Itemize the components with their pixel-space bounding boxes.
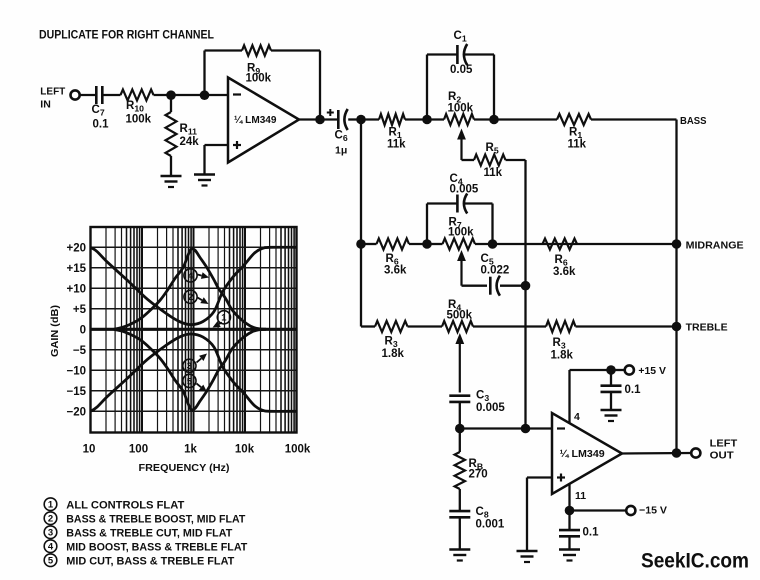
svg-text:0.05: 0.05 <box>450 64 473 76</box>
svg-text:+10: +10 <box>66 284 86 296</box>
graph frame <box>91 227 297 433</box>
svg-text:GAIN (dB): GAIN (dB) <box>49 305 61 357</box>
node junction C5 / center bus <box>521 281 531 291</box>
svg-text:TREBLE: TREBLE <box>686 322 728 334</box>
svg-text:MID CUT, BASS & TREBLE FLAT: MID CUT, BASS & TREBLE FLAT <box>66 555 234 567</box>
node F junction <box>422 239 432 249</box>
svg-text:3.6k: 3.6k <box>553 266 576 278</box>
node junction treble row / right bus <box>672 322 682 332</box>
svg-text:1μ: 1μ <box>335 145 347 157</box>
wire node F to R7 <box>427 243 443 245</box>
capacitor C6 (polarity +) <box>337 110 340 129</box>
capacitor C1 <box>456 45 459 64</box>
wire U1 output <box>299 118 338 120</box>
wire node (361,244) to R6 left <box>361 243 377 245</box>
svg-text:0.005: 0.005 <box>450 184 479 196</box>
resistor R6 (left) <box>377 239 410 250</box>
svg-text:MIDRANGE: MIDRANGE <box>686 240 744 252</box>
curve marker 5 <box>183 374 196 387</box>
resistor R6 (right) <box>543 239 578 250</box>
svg-text:¼ LM349: ¼ LM349 <box>560 448 605 460</box>
ground below -15V bypass <box>559 548 580 551</box>
capacitor C5 <box>489 277 492 295</box>
svg-text:−15 V: −15 V <box>639 505 667 517</box>
wire pin 4 to +15V rail <box>568 370 570 424</box>
wiper arrow of treble pot R4 <box>459 341 461 393</box>
svg-text:+15: +15 <box>66 263 86 275</box>
+15V terminal <box>625 365 634 374</box>
svg-text:11k: 11k <box>484 167 503 179</box>
svg-text:100k: 100k <box>448 103 474 115</box>
svg-text:100k: 100k <box>126 114 152 126</box>
node C junction <box>356 115 366 125</box>
curve 4 (mid boost) <box>114 249 266 329</box>
svg-text:2: 2 <box>48 514 53 525</box>
node H junction <box>455 424 465 434</box>
ground below +15V bypass <box>601 409 622 412</box>
wire R4 to R3 right <box>473 325 546 327</box>
svg-text:0.1: 0.1 <box>625 384 642 396</box>
wire C6 to node C <box>348 118 361 120</box>
wire wiper to C5 <box>462 285 488 287</box>
wire U2 output <box>622 452 691 455</box>
wire center bus vertical (R5 down to U2 minus row) <box>524 160 526 429</box>
capacitor C1 loop top wire <box>427 53 457 55</box>
svg-text:LEFT: LEFT <box>710 437 738 449</box>
op-amp U1 (1/4 LM349) <box>228 78 299 163</box>
wire feedback top left segment <box>205 49 243 51</box>
svg-text:10: 10 <box>83 444 96 456</box>
wire left bus corner to R3 left <box>361 325 375 327</box>
resistor RB <box>459 429 461 453</box>
wire bypass cap to ground <box>610 392 612 410</box>
resistor R10 <box>121 90 154 101</box>
svg-text:100k: 100k <box>448 227 474 239</box>
svg-text:0.1: 0.1 <box>93 119 110 131</box>
curve marker 4 <box>184 269 197 282</box>
wire node G to bus <box>493 243 677 245</box>
svg-text:BASS & TREBLE CUT, MID FLAT: BASS & TREBLE CUT, MID FLAT <box>66 527 232 539</box>
svg-text:3: 3 <box>187 361 192 372</box>
svg-text:4: 4 <box>188 271 194 282</box>
wire feedback vertical left <box>203 51 205 96</box>
wire RB to C8 <box>459 489 461 511</box>
wire node C to R1 <box>361 118 379 120</box>
curve 1 (all controls flat) <box>91 328 297 331</box>
wire C5 to center bus <box>500 285 526 287</box>
wire R7 to node G <box>475 243 493 245</box>
svg-text:100k: 100k <box>246 73 272 85</box>
wiper arrow of midrange pot R7 <box>460 258 462 286</box>
svg-text:11: 11 <box>575 490 586 502</box>
svg-text:270: 270 <box>469 469 488 481</box>
svg-text:+15 V: +15 V <box>638 365 666 377</box>
resistor R3 (right) <box>546 321 576 332</box>
node junction midrange row / right bus <box>672 239 682 249</box>
wire C7 to R10 <box>102 94 120 96</box>
svg-text:0.022: 0.022 <box>481 265 510 277</box>
svg-text:0.001: 0.001 <box>476 519 505 531</box>
ground below C8 <box>449 548 470 551</box>
svg-text:FREQUENCY (Hz): FREQUENCY (Hz) <box>139 462 230 474</box>
input terminal <box>71 90 80 99</box>
wire C3 to node H <box>459 402 461 429</box>
svg-text:DUPLICATE FOR RIGHT CHANNEL: DUPLICATE FOR RIGHT CHANNEL <box>39 30 214 42</box>
op-amp U2 (1/4 LM349) <box>552 413 622 494</box>
wire to -15V terminal <box>570 509 627 511</box>
capacitor C1 loop left vertical wire <box>426 55 428 120</box>
svg-text:5: 5 <box>48 556 54 567</box>
svg-text:BASS & TREBLE BOOST, MID FLAT: BASS & TREBLE BOOST, MID FLAT <box>66 513 245 525</box>
resistor R7 (midrange pot) <box>443 239 476 250</box>
svg-text:3.6k: 3.6k <box>384 265 407 277</box>
wire input to C7 <box>80 94 97 96</box>
node junction left bus / midrange row <box>356 239 366 249</box>
svg-text:10k: 10k <box>235 444 255 456</box>
svg-text:100: 100 <box>129 444 148 456</box>
wire node E to R1 right <box>494 118 557 120</box>
svg-text:−10: −10 <box>66 366 86 378</box>
svg-text:OUT: OUT <box>710 450 735 462</box>
svg-text:4: 4 <box>48 542 54 553</box>
wire node H to node I <box>460 427 526 429</box>
wire to +15V terminal <box>611 369 625 371</box>
wire wiper to R5 <box>462 159 475 161</box>
resistor R2 (bass pot) <box>444 114 474 125</box>
svg-text:ALL CONTROLS FLAT: ALL CONTROLS FLAT <box>66 499 184 511</box>
wire left bus vertical (node C down to treble row) <box>360 120 362 327</box>
ground below R11 <box>161 175 182 178</box>
svg-text:SeekIC.com: SeekIC.com <box>641 550 749 573</box>
resistor R5 <box>474 155 506 166</box>
wire U2 plus input to ground <box>527 476 552 478</box>
wiper arrow of bass pot R2 <box>460 137 462 161</box>
wire R2 to node E <box>474 118 494 120</box>
wire R10 to node A <box>154 94 172 96</box>
svg-text:5: 5 <box>187 376 193 387</box>
svg-text:−20: −20 <box>66 407 86 419</box>
wire R3 to R4 <box>408 325 443 327</box>
legend item 4 <box>44 540 57 553</box>
capacitor C4 loop left vertical wire <box>426 204 428 245</box>
svg-text:BASS: BASS <box>680 115 707 127</box>
legend item 2 <box>44 512 57 525</box>
node E junction <box>489 115 499 125</box>
wire R1 to BASS terminal corner <box>591 118 677 120</box>
svg-text:MID BOOST, BASS & TREBLE FLAT: MID BOOST, BASS & TREBLE FLAT <box>66 541 247 553</box>
resistor R9 <box>242 45 271 55</box>
wire bypass cap to ground <box>568 536 570 549</box>
curve 5 (mid cut) <box>114 329 266 409</box>
output terminal LEFT OUT <box>691 448 700 457</box>
ground below U2 plus input <box>517 550 538 553</box>
svg-text:LEFT: LEFT <box>40 86 66 98</box>
svg-text:0: 0 <box>80 325 86 337</box>
node D junction <box>422 115 432 125</box>
legend item 3 <box>44 526 57 539</box>
wire node D to R2 <box>427 118 444 120</box>
legend item 1 <box>44 498 57 511</box>
capacitor 0.1 (+15V bypass) <box>610 370 612 386</box>
capacitor C7 <box>95 86 98 104</box>
svg-text:1.8k: 1.8k <box>382 348 405 360</box>
wire U1 plus input to ground <box>205 144 229 146</box>
svg-text:+20: +20 <box>66 243 86 255</box>
wire feedback vertical right <box>319 51 321 120</box>
curve marker 3 <box>183 359 196 372</box>
wire R5 to center bus corner <box>506 159 526 161</box>
node junction -15V rail <box>565 506 575 516</box>
node B junction (inverting input of U1) <box>200 90 210 100</box>
capacitor C4 loop top wire <box>427 202 457 204</box>
svg-text:24k: 24k <box>180 136 200 148</box>
node junction output / right bus <box>672 448 682 458</box>
node junction feedback tap <box>315 115 325 125</box>
-15V terminal <box>626 506 635 515</box>
svg-text:4: 4 <box>574 411 580 423</box>
wire right bus vertical (bass to output node) <box>675 120 677 454</box>
resistor R1 (right) <box>557 114 591 125</box>
resistor R1 (left) <box>379 114 405 125</box>
svg-text:11k: 11k <box>387 139 406 151</box>
wire R1 to node D <box>405 118 427 120</box>
svg-text:100k: 100k <box>285 444 311 456</box>
curve 2 (bass & treble boost) <box>91 247 297 324</box>
capacitor 0.1 (-15V bypass) <box>568 511 570 531</box>
svg-text:−15: −15 <box>66 386 86 398</box>
svg-text:11k: 11k <box>568 139 587 151</box>
wire pin 11 to -15V rail <box>568 484 570 511</box>
svg-text:¼ LM349: ¼ LM349 <box>234 114 277 126</box>
svg-text:2: 2 <box>188 292 193 303</box>
svg-text:0.005: 0.005 <box>476 402 505 414</box>
node A junction <box>166 90 176 100</box>
curve marker 1 <box>217 311 230 324</box>
wire C8 to ground <box>459 517 461 549</box>
svg-text:500k: 500k <box>447 310 473 322</box>
svg-text:1.8k: 1.8k <box>551 350 574 362</box>
svg-text:IN: IN <box>40 99 51 111</box>
svg-text:1: 1 <box>48 500 54 511</box>
svg-text:−5: −5 <box>73 345 87 357</box>
wire node I to U2 minus input <box>526 427 553 429</box>
capacitor C8 <box>449 510 470 513</box>
svg-text:1: 1 <box>221 313 227 324</box>
capacitor C3 <box>449 394 470 397</box>
wire node A to node B <box>171 94 205 96</box>
svg-text:0.1: 0.1 <box>583 527 600 539</box>
node G junction <box>488 239 498 249</box>
wire feedback top right segment <box>271 49 320 51</box>
node I junction (center bus / U2 minus) <box>521 424 531 434</box>
capacitor C4 <box>456 195 459 213</box>
svg-text:1k: 1k <box>184 444 197 456</box>
node junction +15V rail <box>606 365 616 375</box>
legend item 5 <box>44 554 57 567</box>
wire R3 right to bus <box>576 325 677 327</box>
resistor R11 <box>170 95 172 112</box>
wire node B to op-amp U1 minus input <box>205 94 229 96</box>
capacitor C4 loop right vertical wire <box>491 204 493 245</box>
wire R6 to node F <box>409 243 427 245</box>
ground below U1 plus input <box>194 173 215 176</box>
svg-text:+5: +5 <box>73 304 87 316</box>
curve 3 (bass & treble cut) <box>91 334 297 411</box>
capacitor C1 loop right vertical wire <box>493 55 495 120</box>
resistor R4 (treble pot) <box>442 321 473 332</box>
curve marker 2 <box>184 290 197 303</box>
resistor R3 (left) <box>375 321 408 332</box>
svg-text:3: 3 <box>48 528 53 539</box>
